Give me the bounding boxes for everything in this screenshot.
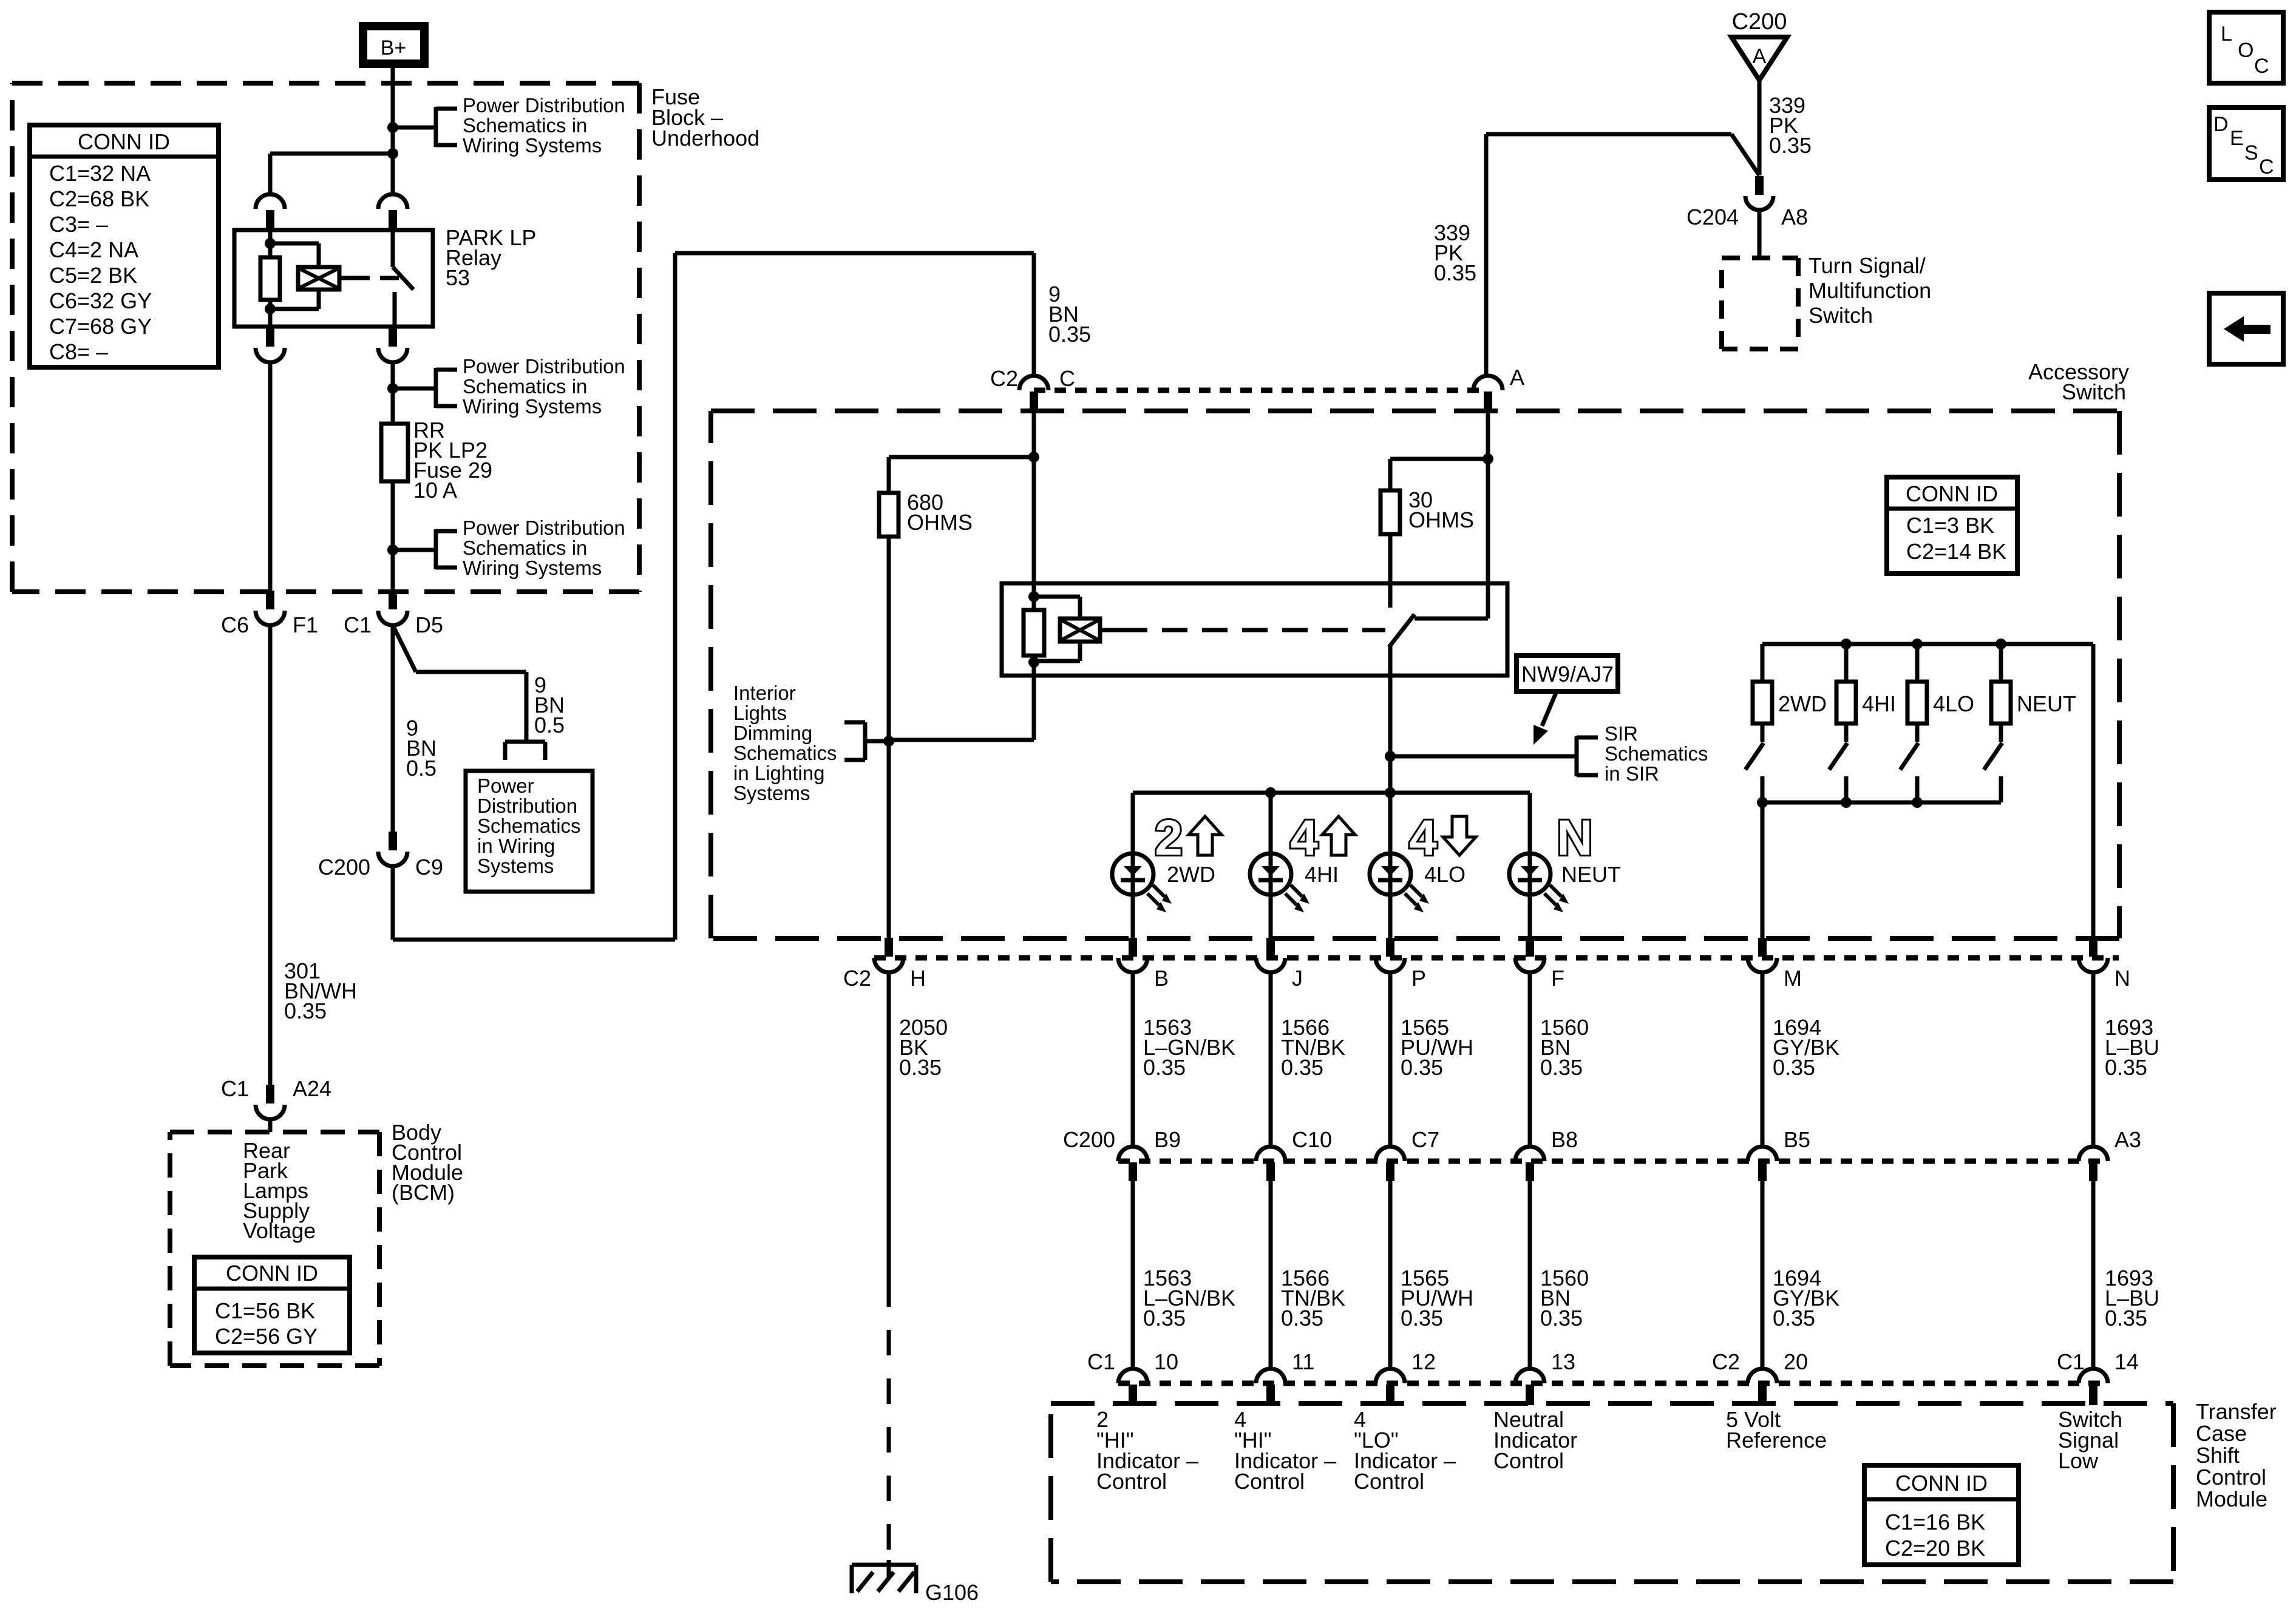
svg-text:A3: A3: [2114, 1127, 2141, 1152]
svg-text:Case: Case: [2196, 1421, 2247, 1446]
svg-text:2WD: 2WD: [1167, 862, 1215, 887]
svg-text:C200: C200: [1063, 1127, 1115, 1152]
svg-text:N: N: [1557, 810, 1592, 866]
svg-text:Turn Signal/: Turn Signal/: [1809, 253, 1926, 278]
svg-text:Reference: Reference: [1726, 1428, 1827, 1453]
svg-text:0.35: 0.35: [899, 1055, 942, 1080]
svg-text:Transfer: Transfer: [2196, 1399, 2277, 1424]
svg-text:OHMS: OHMS: [907, 510, 973, 535]
svg-text:0.5: 0.5: [406, 756, 436, 781]
svg-text:0.35: 0.35: [2105, 1055, 2147, 1080]
svg-text:Control: Control: [1354, 1469, 1424, 1494]
svg-text:4: 4: [1290, 810, 1318, 866]
svg-text:Distribution: Distribution: [477, 795, 577, 817]
svg-text:Underhood: Underhood: [651, 126, 759, 151]
svg-text:4LO: 4LO: [1424, 862, 1466, 887]
svg-text:Wiring Systems: Wiring Systems: [463, 557, 602, 579]
svg-text:20: 20: [1784, 1349, 1808, 1374]
svg-text:C2=68 BK: C2=68 BK: [49, 186, 149, 211]
svg-text:in Lighting: in Lighting: [733, 762, 824, 784]
svg-text:C: C: [1059, 366, 1075, 391]
svg-text:M: M: [1784, 966, 1802, 991]
svg-text:Voltage: Voltage: [243, 1218, 316, 1243]
svg-text:Dimming: Dimming: [733, 722, 812, 744]
svg-text:Control: Control: [1234, 1469, 1305, 1494]
svg-text:Shift: Shift: [2196, 1443, 2240, 1468]
svg-text:C200: C200: [1732, 9, 1787, 35]
svg-text:C4=2 NA: C4=2 NA: [49, 237, 138, 262]
svg-text:0.35: 0.35: [1540, 1306, 1583, 1331]
svg-text:2WD: 2WD: [1778, 691, 1827, 716]
svg-text:C7: C7: [1411, 1127, 1439, 1152]
svg-text:B+: B+: [381, 36, 407, 59]
svg-text:Schematics in: Schematics in: [463, 114, 587, 137]
svg-text:Lights: Lights: [733, 702, 787, 724]
svg-text:Power: Power: [477, 775, 534, 797]
svg-text:CONN ID: CONN ID: [1906, 481, 1998, 506]
svg-text:C1=32 NA: C1=32 NA: [49, 161, 151, 186]
svg-text:C8= –: C8= –: [49, 339, 108, 364]
svg-text:CONN ID: CONN ID: [78, 129, 170, 154]
svg-text:F: F: [1551, 966, 1564, 991]
svg-text:O: O: [2238, 39, 2254, 62]
svg-text:C1: C1: [221, 1076, 249, 1101]
svg-text:N: N: [2114, 966, 2130, 991]
svg-text:Systems: Systems: [477, 855, 554, 877]
svg-text:Schematics: Schematics: [733, 742, 837, 764]
svg-text:C2: C2: [843, 966, 871, 991]
svg-text:A24: A24: [293, 1076, 331, 1101]
svg-text:C: C: [2254, 55, 2269, 78]
svg-text:14: 14: [2114, 1349, 2139, 1374]
svg-text:B: B: [1154, 966, 1169, 991]
svg-text:10 A: 10 A: [413, 478, 457, 503]
svg-text:0.35: 0.35: [1434, 260, 1476, 285]
svg-text:Schematics: Schematics: [477, 815, 581, 837]
svg-text:C1=16 BK: C1=16 BK: [1885, 1510, 1985, 1534]
svg-text:C1: C1: [2057, 1349, 2085, 1374]
svg-text:0.35: 0.35: [1769, 133, 1812, 158]
svg-text:C1=3 BK: C1=3 BK: [1906, 513, 1994, 538]
svg-text:OHMS: OHMS: [1408, 507, 1474, 532]
svg-text:NW9/AJ7: NW9/AJ7: [1521, 662, 1614, 686]
svg-text:C1: C1: [344, 612, 372, 637]
svg-text:0.35: 0.35: [1143, 1306, 1186, 1331]
svg-text:D5: D5: [415, 612, 443, 637]
svg-text:0.35: 0.35: [1401, 1306, 1443, 1331]
svg-text:13: 13: [1551, 1349, 1575, 1374]
svg-text:4HI: 4HI: [1305, 862, 1339, 887]
svg-text:11: 11: [1292, 1349, 1314, 1374]
svg-text:53: 53: [446, 265, 470, 290]
svg-text:P: P: [1411, 966, 1426, 991]
svg-text:0.35: 0.35: [1401, 1055, 1443, 1080]
svg-text:Power Distribution: Power Distribution: [463, 355, 625, 378]
svg-text:12: 12: [1411, 1349, 1436, 1374]
svg-text:C6: C6: [221, 612, 249, 637]
svg-text:A8: A8: [1781, 205, 1808, 229]
svg-text:(BCM): (BCM): [392, 1180, 455, 1205]
svg-text:A: A: [1753, 45, 1767, 68]
svg-text:Control: Control: [1096, 1469, 1167, 1494]
svg-text:B5: B5: [1784, 1127, 1810, 1152]
svg-text:Schematics: Schematics: [1605, 742, 1708, 765]
svg-text:E: E: [2230, 127, 2244, 150]
svg-text:C2=20 BK: C2=20 BK: [1885, 1536, 1985, 1561]
svg-text:D: D: [2213, 113, 2229, 136]
svg-text:Wiring Systems: Wiring Systems: [463, 134, 602, 157]
svg-text:Wiring Systems: Wiring Systems: [463, 395, 602, 418]
svg-text:0.35: 0.35: [1773, 1306, 1815, 1331]
svg-text:in SIR: in SIR: [1605, 762, 1659, 785]
svg-text:C204: C204: [1686, 205, 1739, 229]
svg-text:Control: Control: [1493, 1448, 1564, 1473]
svg-text:B9: B9: [1154, 1127, 1181, 1152]
svg-text:C2=14 BK: C2=14 BK: [1906, 539, 2006, 564]
svg-text:C: C: [2259, 155, 2274, 178]
svg-text:0.35: 0.35: [1048, 322, 1091, 347]
svg-text:Switch: Switch: [2062, 379, 2126, 404]
svg-text:H: H: [910, 966, 926, 991]
svg-text:C2=56 GY: C2=56 GY: [215, 1324, 318, 1349]
svg-text:2: 2: [1155, 810, 1183, 866]
svg-text:10: 10: [1154, 1349, 1178, 1374]
svg-text:4: 4: [1409, 810, 1437, 866]
svg-text:0.5: 0.5: [534, 713, 565, 737]
svg-text:in Wiring: in Wiring: [477, 835, 555, 857]
svg-text:Switch: Switch: [1809, 303, 1873, 328]
svg-text:Low: Low: [2058, 1448, 2099, 1473]
svg-text:G106: G106: [925, 1580, 979, 1605]
svg-text:Interior: Interior: [733, 682, 796, 704]
svg-text:0.35: 0.35: [2105, 1306, 2147, 1331]
svg-text:A: A: [1510, 365, 1524, 390]
svg-text:J: J: [1292, 966, 1303, 991]
svg-text:Power Distribution: Power Distribution: [463, 517, 625, 539]
svg-text:SIR: SIR: [1605, 722, 1638, 745]
svg-text:C9: C9: [415, 855, 443, 880]
svg-text:C1: C1: [1087, 1349, 1115, 1374]
svg-text:C1=56 BK: C1=56 BK: [215, 1298, 315, 1323]
svg-text:NEUT: NEUT: [2017, 691, 2076, 716]
svg-text:4HI: 4HI: [1862, 691, 1896, 716]
svg-text:C5=2 BK: C5=2 BK: [49, 263, 137, 288]
svg-text:0.35: 0.35: [1281, 1055, 1323, 1080]
svg-text:C2: C2: [1712, 1349, 1740, 1374]
svg-text:4LO: 4LO: [1933, 691, 1974, 716]
svg-text:B8: B8: [1551, 1127, 1578, 1152]
svg-text:Schematics in: Schematics in: [463, 537, 587, 559]
svg-text:0.35: 0.35: [1773, 1055, 1815, 1080]
svg-text:L: L: [2221, 22, 2232, 46]
svg-text:Control: Control: [2196, 1465, 2266, 1490]
svg-text:S: S: [2244, 141, 2258, 164]
svg-text:NEUT: NEUT: [1561, 862, 1621, 887]
svg-text:CONN ID: CONN ID: [226, 1261, 318, 1286]
svg-text:0.35: 0.35: [1540, 1055, 1583, 1080]
svg-text:C3= –: C3= –: [49, 212, 108, 237]
svg-text:0.35: 0.35: [284, 998, 327, 1023]
svg-text:C2: C2: [990, 366, 1018, 391]
svg-text:Multifunction: Multifunction: [1809, 278, 1931, 303]
svg-text:0.35: 0.35: [1281, 1306, 1323, 1331]
svg-text:F1: F1: [293, 612, 318, 637]
svg-text:C10: C10: [1292, 1127, 1332, 1152]
svg-text:0.35: 0.35: [1143, 1055, 1186, 1080]
svg-text:Power Distribution: Power Distribution: [463, 94, 625, 117]
svg-text:Systems: Systems: [733, 782, 810, 804]
svg-text:Module: Module: [2196, 1486, 2267, 1511]
svg-text:CONN ID: CONN ID: [1895, 1471, 1988, 1496]
svg-text:C7=68 GY: C7=68 GY: [49, 314, 152, 339]
svg-text:Schematics in: Schematics in: [463, 375, 587, 398]
svg-text:C6=32 GY: C6=32 GY: [49, 288, 152, 313]
svg-text:C200: C200: [318, 855, 370, 880]
